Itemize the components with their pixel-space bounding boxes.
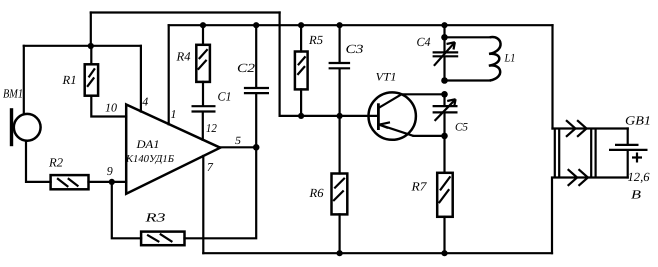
pin 5 output wire bbox=[220, 135, 256, 148]
node rail R7 bbox=[441, 250, 447, 256]
capacitor C1 bbox=[192, 82, 232, 112]
op-amp DA1 bbox=[125, 105, 220, 194]
node collector junction bbox=[441, 91, 448, 98]
connector arrows top bbox=[566, 120, 587, 137]
resistor R7 bbox=[410, 136, 452, 253]
resistor R1 bbox=[61, 46, 98, 96]
svg-text:R4: R4 bbox=[175, 50, 190, 64]
wire bottom rail bbox=[203, 252, 552, 254]
node bus2 R4 bbox=[200, 22, 206, 28]
connector bars right pair bbox=[591, 130, 595, 178]
svg-text:7: 7 bbox=[207, 160, 214, 174]
svg-text:R6: R6 bbox=[308, 186, 324, 200]
svg-text:R2: R2 bbox=[48, 156, 63, 170]
capacitor C3 bbox=[329, 25, 364, 116]
svg-text:В: В bbox=[631, 187, 641, 201]
resistor R2 bbox=[48, 156, 89, 190]
pin 7 wire bbox=[203, 156, 214, 253]
node R5 bottom bbox=[298, 113, 304, 119]
svg-text:R3: R3 bbox=[144, 210, 165, 224]
pin 1 riser bbox=[169, 25, 177, 124]
node output junction bbox=[253, 144, 260, 151]
node bus2 C3 bbox=[337, 22, 343, 28]
node L1 bottom bbox=[441, 77, 448, 84]
node R1 top junction bbox=[88, 43, 94, 49]
connector bars left pair bbox=[555, 130, 559, 178]
wire R2 to pin 9 bbox=[89, 181, 127, 183]
svg-text:BM1: BM1 bbox=[3, 86, 23, 100]
svg-text:C1: C1 bbox=[218, 90, 232, 104]
node emitter junction bbox=[441, 133, 448, 140]
wire pin9 down to R3 bbox=[112, 182, 141, 238]
svg-text:9: 9 bbox=[107, 164, 113, 178]
svg-text:R1: R1 bbox=[61, 73, 76, 87]
inductor L1 bbox=[445, 37, 516, 80]
wire R3 right to output node bbox=[185, 147, 257, 238]
svg-text:4: 4 bbox=[142, 95, 148, 109]
svg-text:VT1: VT1 bbox=[376, 72, 397, 84]
node bus2 tank bbox=[441, 22, 447, 28]
svg-text:5: 5 bbox=[235, 135, 242, 147]
resistor R3 bbox=[141, 210, 184, 245]
wire bus2 bbox=[169, 24, 553, 26]
wire connector top bbox=[553, 127, 628, 129]
svg-text:C2: C2 bbox=[237, 61, 255, 75]
svg-text:12: 12 bbox=[206, 121, 217, 135]
node rail R6 bbox=[337, 250, 343, 256]
battery GB1 bbox=[609, 114, 651, 202]
microphone BM1 bbox=[3, 86, 41, 146]
wire emitter bbox=[414, 135, 445, 137]
capacitor C2 bbox=[237, 25, 269, 147]
wire R1 bottom to pin 10 bbox=[91, 96, 126, 117]
resistor R5 bbox=[295, 25, 323, 116]
wire bus1 right drop to base bbox=[279, 13, 281, 116]
svg-text:L1: L1 bbox=[504, 53, 516, 65]
capacitor C4 variable bbox=[417, 25, 459, 80]
node bus2 R5 bbox=[298, 22, 304, 28]
svg-text:К140УД1Б: К140УД1Б bbox=[125, 154, 174, 165]
wire BM1 bottom to R2 bbox=[26, 141, 51, 182]
node L1 top bbox=[441, 34, 448, 41]
node bus2 C2 bbox=[253, 22, 259, 28]
svg-text:DA1: DA1 bbox=[135, 139, 159, 151]
wire right top drop bbox=[551, 25, 553, 128]
connector arrows bottom bbox=[568, 169, 588, 186]
svg-text:12,6: 12,6 bbox=[628, 170, 651, 184]
svg-text:R7: R7 bbox=[410, 180, 427, 194]
svg-text:C3: C3 bbox=[346, 42, 364, 56]
wire connector bottom bbox=[552, 178, 628, 254]
wire BM1 top to R1/pin4 bbox=[24, 46, 141, 114]
svg-text:10: 10 bbox=[105, 100, 117, 114]
wire base net bbox=[280, 115, 379, 117]
wire collector bbox=[402, 93, 445, 95]
transistor VT1 bbox=[369, 72, 416, 140]
svg-text:R5: R5 bbox=[308, 33, 323, 47]
svg-text:1: 1 bbox=[171, 107, 177, 121]
pin 12 wire bbox=[203, 113, 217, 140]
pin 4 riser bbox=[141, 46, 148, 112]
capacitor C5 variable bbox=[433, 94, 469, 136]
svg-text:C5: C5 bbox=[455, 122, 468, 134]
node pin 9 junction bbox=[109, 179, 115, 185]
resistor R6 bbox=[308, 116, 347, 253]
resistor R4 bbox=[175, 25, 209, 82]
svg-text:GB1: GB1 bbox=[625, 114, 651, 128]
wire top bus1 bbox=[91, 13, 280, 47]
node C3/R6 bbox=[337, 113, 343, 119]
svg-text:C4: C4 bbox=[417, 35, 431, 49]
